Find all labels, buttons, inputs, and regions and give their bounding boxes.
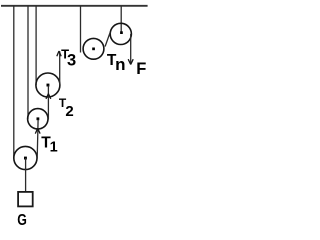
pulley fixed top-right (110, 23, 131, 44)
label T2 (59, 96, 74, 120)
svg-text:G: G (17, 212, 27, 229)
wire rope3 right side free end (59, 51, 61, 85)
label T1 (41, 134, 57, 155)
pulley T2 (28, 109, 48, 129)
pulley Tn (movable) (83, 38, 104, 59)
pulley T3 (36, 73, 60, 97)
wire rope2 left anchor to ceiling (27, 6, 29, 119)
wire rope1 right side up to T2 axle (36, 120, 39, 159)
load G box (18, 192, 33, 207)
wire slanted rope from Tn pulley to fixed pulley (105, 32, 110, 46)
wire hanger of fixed pulley (120, 6, 122, 34)
arrow T1 tension (35, 128, 40, 133)
svg-text:2: 2 (65, 103, 73, 120)
arrow F force down (128, 59, 133, 64)
wire hanger from T1 axle to load G (25, 158, 27, 191)
label Tn (107, 52, 126, 74)
svg-text:n: n (115, 55, 125, 74)
arrow T2 tension (46, 94, 51, 99)
wire rope2 right side up to T3 axle (47, 86, 49, 120)
wire rope3 left anchor to ceiling (35, 6, 37, 85)
wire rope1 left anchor to ceiling (13, 6, 15, 158)
ceiling (1, 5, 148, 7)
wire rope-n left anchor to ceiling (80, 6, 82, 53)
svg-text:1: 1 (50, 140, 58, 156)
pulley T1 (14, 146, 37, 169)
wire rope F pull side (130, 34, 132, 64)
arrow T3 tension (57, 51, 61, 56)
label T3 (61, 47, 76, 70)
svg-text:F: F (136, 60, 146, 78)
svg-text:3: 3 (67, 51, 76, 69)
